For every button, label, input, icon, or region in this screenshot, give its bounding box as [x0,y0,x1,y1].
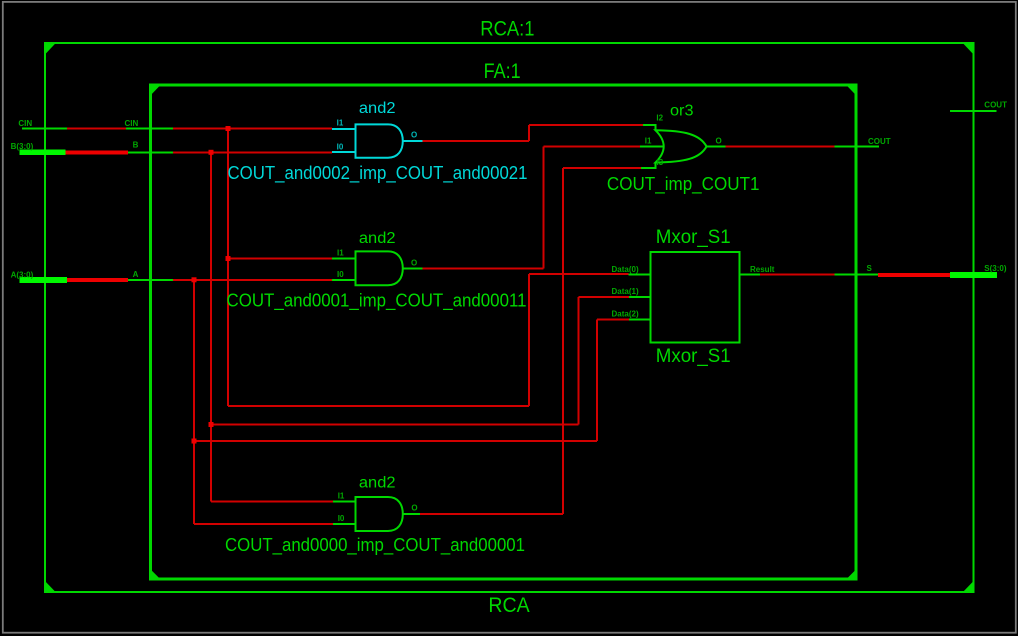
svg-text:B: B [133,141,139,150]
svg-text:Result: Result [750,265,775,274]
svg-text:Mxor_S1: Mxor_S1 [656,226,731,248]
svg-text:Data(1): Data(1) [612,287,639,296]
svg-text:O: O [411,504,417,513]
svg-text:I2: I2 [656,113,663,122]
svg-text:I1: I1 [337,119,344,128]
svg-text:and2: and2 [359,474,396,491]
svg-text:RCA:1: RCA:1 [480,17,534,41]
svg-text:I0: I0 [337,270,344,279]
svg-text:and2: and2 [359,100,396,117]
svg-text:RCA: RCA [488,593,530,617]
svg-text:COUT_and0002_imp_COUT_and00021: COUT_and0002_imp_COUT_and00021 [228,163,528,184]
svg-text:O: O [716,136,722,145]
svg-text:I0: I0 [338,514,345,523]
svg-text:A(3:0): A(3:0) [11,270,34,279]
svg-text:I3: I3 [657,158,664,167]
svg-text:COUT_imp_COUT1: COUT_imp_COUT1 [607,174,760,195]
svg-text:CIN: CIN [125,119,139,128]
svg-text:COUT: COUT [984,101,1007,110]
svg-text:I1: I1 [645,136,652,145]
svg-text:CIN: CIN [18,119,32,128]
svg-text:Mxor_S1: Mxor_S1 [656,345,731,367]
svg-text:I1: I1 [338,492,345,501]
svg-text:S: S [867,264,873,273]
svg-text:B(3:0): B(3:0) [11,142,34,151]
svg-text:S(3:0): S(3:0) [984,264,1007,273]
svg-text:COUT_and0001_imp_COUT_and00011: COUT_and0001_imp_COUT_and00011 [227,291,527,312]
svg-text:I0: I0 [337,142,344,151]
svg-text:O: O [411,259,417,268]
svg-text:FA:1: FA:1 [484,59,521,83]
svg-text:Data(0): Data(0) [612,265,639,274]
svg-text:COUT: COUT [868,137,891,146]
svg-text:O: O [411,131,417,140]
svg-text:A: A [133,270,139,279]
svg-text:and2: and2 [359,230,396,247]
svg-text:I1: I1 [337,249,344,258]
svg-text:Data(2): Data(2) [612,310,639,319]
svg-text:or3: or3 [670,103,694,120]
svg-text:COUT_and0000_imp_COUT_and00001: COUT_and0000_imp_COUT_and00001 [225,535,525,556]
